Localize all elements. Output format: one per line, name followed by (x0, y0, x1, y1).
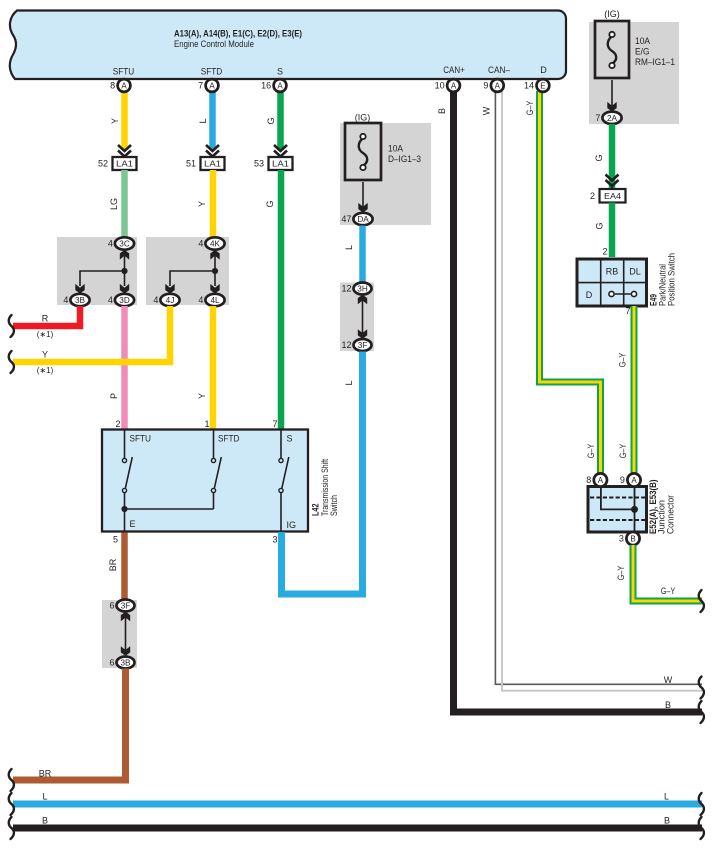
svg-text:7: 7 (595, 113, 600, 123)
svg-text:LA1: LA1 (116, 159, 133, 169)
connector 3C (108, 237, 134, 249)
wire L from ECM pin 7 SFTD (198, 91, 213, 150)
svg-text:16: 16 (261, 81, 271, 91)
L42 internal E bus (121, 506, 213, 531)
svg-text:A13(A), A14(B), E1(C), E2(D),: A13(A), A14(B), E1(C), E2(D), E3(E) (174, 29, 302, 39)
svg-text:A: A (631, 476, 637, 485)
svg-text:SFTU: SFTU (130, 434, 152, 444)
svg-text:6: 6 (109, 601, 114, 611)
svg-text:A: A (277, 82, 283, 91)
svg-text:7: 7 (198, 81, 203, 91)
connector block 3C/3B/3D (57, 237, 137, 305)
svg-text:3B: 3B (120, 659, 131, 668)
svg-text:(IG): (IG) (604, 9, 620, 19)
svg-text:2: 2 (590, 191, 595, 201)
connector 4J (153, 294, 179, 306)
svg-text:Y: Y (42, 350, 48, 360)
fuse 10A E/G RM-IG1-1 (589, 9, 679, 124)
svg-text:4J: 4J (166, 296, 175, 305)
fuse 10A D-IG1-3 (340, 113, 431, 226)
wire G-Y from junction pin 3 to right edge (616, 545, 704, 612)
svg-text:Connector: Connector (666, 495, 676, 534)
svg-text:D: D (540, 65, 547, 75)
svg-text:3B: 3B (75, 296, 86, 305)
svg-text:Y: Y (110, 118, 120, 124)
svg-text:3F: 3F (358, 341, 368, 350)
ECM pin 7 (A) SFTD (198, 79, 218, 92)
svg-text:B: B (42, 816, 48, 826)
shielded connector 51 LA1 (186, 145, 225, 170)
svg-text:G–Y: G–Y (616, 566, 626, 581)
ECM pin 14 (E) D (524, 79, 549, 92)
svg-text:A: A (451, 82, 457, 91)
svg-text:3H: 3H (357, 285, 368, 294)
shielded connector 52 LA1 (98, 145, 137, 170)
svg-text:3F: 3F (121, 602, 131, 611)
svg-text:7: 7 (625, 306, 630, 316)
svg-text:G: G (594, 154, 604, 161)
svg-text:4: 4 (108, 295, 113, 305)
svg-text:A: A (209, 82, 215, 91)
svg-text:S: S (287, 434, 293, 444)
ECM pin 10 (A) CAN+ (435, 79, 460, 92)
E49 Park/Neutral Position Switch (577, 259, 647, 306)
svg-text:P: P (109, 393, 119, 399)
wire Y from 4L to L42 pin 1 (197, 306, 213, 430)
svg-text:R: R (42, 314, 49, 324)
svg-text:8: 8 (110, 81, 115, 91)
svg-text:G–Y: G–Y (618, 353, 628, 368)
svg-text:W: W (664, 675, 673, 685)
svg-text:(∗1): (∗1) (37, 330, 54, 339)
svg-text:A: A (598, 476, 604, 485)
svg-text:Switch: Switch (329, 495, 339, 516)
svg-text:3D: 3D (119, 296, 130, 305)
ECM pin 8 (A) SFTU (110, 79, 130, 92)
svg-text:CAN–: CAN– (488, 65, 510, 75)
ECM pin 16 (A) S (261, 79, 286, 92)
svg-text:D: D (586, 290, 593, 300)
wire G from ECM pin 16 S (266, 91, 281, 150)
E49 label (649, 253, 677, 306)
wire B from ECM pin 10 CAN+ (437, 91, 704, 723)
svg-text:53: 53 (254, 159, 264, 169)
svg-text:4L: 4L (210, 296, 220, 305)
svg-text:A: A (495, 82, 501, 91)
wire Y (*1) from 4J (9, 306, 170, 375)
svg-text:Position Switch: Position Switch (667, 253, 677, 306)
svg-text:SFTD: SFTD (201, 67, 223, 77)
svg-text:4: 4 (153, 295, 158, 305)
svg-text:BR: BR (108, 558, 118, 571)
svg-text:D–IG1–3: D–IG1–3 (388, 154, 421, 164)
connector 12 3H (341, 283, 371, 295)
svg-text:L: L (344, 380, 354, 385)
svg-text:G–Y: G–Y (661, 586, 676, 596)
connector 47 DA (341, 213, 372, 225)
connector 3F (109, 600, 134, 612)
svg-text:4: 4 (198, 239, 203, 249)
svg-text:12: 12 (341, 340, 351, 350)
svg-text:L: L (344, 245, 354, 250)
connector 7 2A (595, 112, 621, 124)
svg-text:7: 7 (272, 419, 277, 429)
svg-text:G: G (266, 117, 276, 124)
wire L from DA to 3H (344, 226, 363, 284)
svg-text:4K: 4K (210, 240, 221, 249)
connector 3D (108, 294, 134, 306)
svg-text:IG: IG (287, 520, 297, 530)
connector block 3F/3B (102, 600, 137, 668)
svg-text:4: 4 (63, 295, 68, 305)
svg-text:47: 47 (341, 214, 351, 224)
svg-text:6: 6 (109, 658, 114, 668)
svg-text:(IG): (IG) (355, 113, 371, 123)
wire G from 2A to EA4 (594, 124, 612, 190)
connector 4L (198, 294, 224, 306)
switch S inside L42 (279, 430, 289, 531)
svg-text:LA1: LA1 (272, 159, 289, 169)
svg-text:W: W (482, 106, 492, 115)
svg-text:8: 8 (586, 475, 591, 485)
connector 4K (198, 237, 224, 249)
svg-text:12: 12 (341, 284, 351, 294)
svg-text:2A: 2A (607, 114, 618, 123)
switch SFTD inside L42 (211, 430, 221, 509)
svg-text:10A: 10A (635, 36, 650, 46)
svg-text:52: 52 (98, 159, 108, 169)
wire BR from L42 pin 5 to 3F (108, 533, 125, 601)
svg-text:S: S (277, 67, 283, 77)
svg-text:14: 14 (524, 81, 534, 91)
wire Y from LA1 to 4K (197, 170, 213, 238)
svg-text:RM–IG1–1: RM–IG1–1 (635, 57, 675, 67)
svg-text:E/G: E/G (635, 47, 650, 57)
svg-text:B: B (437, 108, 447, 114)
svg-text:G–Y: G–Y (586, 444, 596, 459)
svg-text:4: 4 (108, 239, 113, 249)
shielded connector 53 LA1 (254, 145, 293, 170)
svg-text:3: 3 (272, 535, 277, 545)
svg-text:2: 2 (602, 247, 607, 257)
wire G from LA1 53 to L42 pin 7 (265, 170, 281, 430)
wire BR from 3B to left edge (9, 669, 126, 792)
svg-text:EA4: EA4 (604, 191, 621, 201)
svg-text:G–Y: G–Y (525, 101, 535, 116)
wire Y from ECM pin 8 SFTU (110, 91, 125, 150)
shielded connector 2 EA4 (590, 175, 626, 203)
E52(A) E53(B) Junction Connector (588, 487, 647, 533)
wire R (*1) from 3B (9, 306, 80, 339)
svg-text:G: G (265, 200, 275, 207)
svg-text:3: 3 (619, 534, 624, 544)
svg-text:Y: Y (197, 201, 207, 207)
wire LG from LA1 to 3C (109, 170, 125, 238)
svg-text:Engine Control Module: Engine Control Module (174, 39, 254, 49)
junction pin 8 (A) (586, 473, 607, 486)
connector 12 3F (341, 339, 371, 351)
ECM A13(A),A14(B),E1(C),E2(D),E3(E) Engine Control Module (10, 11, 566, 80)
ECM pin 9 (A) CAN- (483, 79, 503, 92)
wire L from 3F to L42 pin 3 IG (282, 352, 363, 595)
svg-text:L: L (664, 792, 669, 802)
wire G-Y from E49 pin 7 to junction pin 9 (618, 306, 635, 474)
E52/E53 label (648, 480, 676, 535)
connector 3B (109, 657, 134, 669)
svg-text:9: 9 (483, 81, 488, 91)
svg-text:E: E (540, 82, 545, 91)
connector 3B (63, 294, 89, 306)
junction pin 3 (B) (619, 532, 640, 545)
svg-text:1: 1 (204, 419, 209, 429)
connector block 4K/4J/4L (146, 237, 229, 305)
svg-text:51: 51 (186, 159, 196, 169)
svg-text:9: 9 (620, 475, 625, 485)
bus wire B bottom (9, 816, 704, 840)
svg-text:LA1: LA1 (204, 159, 221, 169)
wire P from 3D to L42 pin 2 (109, 306, 125, 430)
svg-text:RB: RB (606, 267, 619, 277)
svg-text:CAN+: CAN+ (443, 65, 465, 75)
wire W from ECM pin 9 CAN- (482, 91, 704, 699)
svg-text:10: 10 (435, 81, 445, 91)
L42 label (311, 459, 340, 516)
bus wire L bottom (9, 792, 704, 816)
svg-text:B: B (665, 700, 671, 710)
svg-text:L: L (198, 118, 208, 123)
svg-text:SFTD: SFTD (218, 434, 240, 444)
svg-text:3C: 3C (119, 240, 130, 249)
svg-text:2: 2 (115, 419, 120, 429)
svg-text:E: E (130, 519, 136, 529)
svg-text:B: B (630, 535, 635, 544)
wire G-Y from ECM pin 14 D to junction connector pin 8 (525, 91, 601, 474)
svg-text:10A: 10A (388, 144, 403, 154)
L42 Transmission Shift Switch (102, 419, 308, 545)
svg-text:SFTU: SFTU (113, 67, 135, 77)
svg-text:DL: DL (629, 267, 641, 277)
svg-text:BR: BR (39, 769, 52, 779)
svg-text:G–Y: G–Y (618, 444, 628, 459)
svg-text:5: 5 (113, 535, 118, 545)
svg-text:L: L (42, 792, 47, 802)
svg-text:Y: Y (197, 393, 207, 399)
svg-text:G: G (595, 222, 605, 229)
svg-text:A: A (121, 82, 127, 91)
junction pin 9 (A) (620, 473, 641, 486)
switch SFTU inside L42 (122, 430, 132, 509)
svg-text:(∗1): (∗1) (37, 366, 54, 375)
svg-text:4: 4 (198, 295, 203, 305)
svg-text:LG: LG (109, 198, 119, 210)
svg-text:DA: DA (357, 215, 369, 224)
connector block 3H/3F (340, 283, 374, 352)
wire G from EA4 to E49 pin 2 (595, 203, 613, 258)
svg-text:B: B (664, 816, 670, 826)
